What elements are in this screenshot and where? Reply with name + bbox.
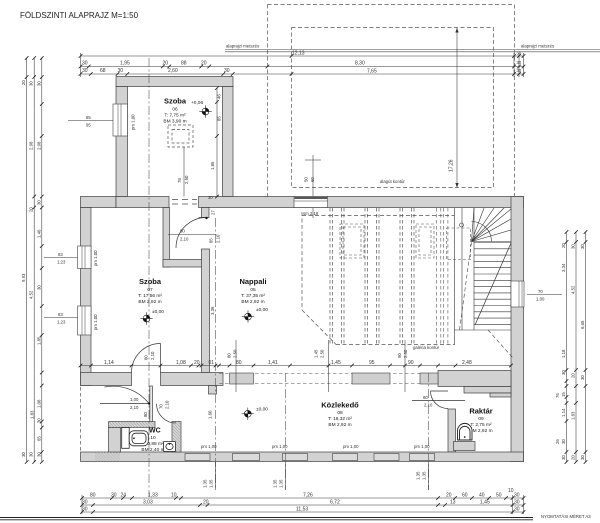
wall wc east: [172, 422, 181, 453]
windows: west wall szoba06: [113, 104, 128, 136]
svg-text:30: 30: [36, 418, 41, 423]
top dim line end connectors right: [81, 53, 524, 77]
wall stub corridor/wc (thin partition): [150, 386, 153, 422]
wc west dashed edge: [80, 387, 82, 452]
wall raktar north-east block: [490, 393, 511, 397]
survey symbol szoba06: [199, 105, 211, 117]
svg-text:30: 30: [36, 200, 41, 205]
svg-text:6,72: 6,72: [330, 500, 340, 506]
svg-text:20: 20: [571, 455, 576, 460]
szoba06 interior right dim line: [216, 88, 218, 197]
tunnel contour outer dashed rect: [268, 5, 515, 197]
svg-text:2,48: 2,48: [462, 360, 472, 366]
wall raktar north: [464, 387, 511, 394]
svg-text:30: 30: [82, 68, 88, 74]
svg-text:30: 30: [208, 195, 213, 200]
gallery joist strips: [330, 208, 414, 345]
door west corridor arc: [100, 386, 149, 403]
svg-text:±0,00: ±0,00: [152, 309, 164, 315]
svg-text:FÖLDSZINTI ALAPRAJZ M=1:50: FÖLDSZINTI ALAPRAJZ M=1:50: [20, 11, 139, 20]
svg-text:17,26: 17,26: [449, 159, 455, 172]
svg-text:85: 85: [86, 115, 91, 120]
svg-text:30: 30: [514, 500, 520, 506]
svg-text:30: 30: [514, 507, 520, 513]
stair newel circle: [460, 223, 464, 227]
right vertical dimension chains: [567, 232, 586, 462]
entry opening dashes (szoba06 to hall): [172, 200, 197, 205]
svg-text:1,83: 1,83: [30, 410, 35, 419]
svg-text:1,14: 1,14: [561, 408, 566, 417]
dim ticks top rows: [79, 54, 526, 76]
svg-text:pm 1,00: pm 1,00: [414, 444, 430, 449]
svg-text:2,10: 2,10: [165, 400, 170, 409]
svg-text:1,35: 1,35: [279, 479, 284, 488]
svg-text:2,50: 2,50: [184, 175, 189, 184]
svg-text:1,45: 1,45: [480, 500, 490, 506]
svg-text:1,95: 1,95: [120, 61, 130, 67]
stair gallery dashed opening box: [447, 228, 471, 260]
svg-text:85: 85: [217, 116, 222, 121]
stair stringer diagonal: [475, 243, 511, 325]
svg-text:1,83: 1,83: [571, 411, 576, 420]
svg-text:7,65: 7,65: [367, 68, 377, 74]
svg-text:2,98: 2,98: [29, 141, 34, 150]
south glazing band nappali: dashed sill lines: [219, 374, 438, 384]
window dim szoba07 window1 (83/1,23): [44, 257, 81, 259]
svg-text:1,00: 1,00: [130, 397, 139, 402]
svg-text:80: 80: [90, 493, 96, 499]
svg-text:pm 1,00: pm 1,00: [201, 444, 217, 449]
room label szoba07: [138, 277, 162, 305]
svg-text:10: 10: [508, 488, 514, 494]
svg-text:3,34: 3,34: [561, 263, 566, 272]
room label raktar: [469, 407, 492, 435]
svg-text:BM 2,40 m: BM 2,40 m: [141, 447, 164, 453]
svg-text:alagút kontúr: alagút kontúr: [380, 179, 405, 184]
svg-text:BM 2,92 m: BM 2,92 m: [328, 422, 351, 428]
wall main north (left of annex): [81, 197, 117, 208]
stair winder radial treads: [472, 208, 512, 242]
svg-text:1,00: 1,00: [536, 297, 545, 302]
svg-text:2,10: 2,10: [150, 351, 155, 360]
svg-text:20: 20: [21, 80, 26, 85]
wall szoba06 left: [116, 87, 128, 197]
svg-text:08: 08: [337, 410, 343, 416]
svg-text:1,33: 1,33: [148, 493, 158, 499]
svg-text:46: 46: [217, 94, 222, 99]
svg-text:Raktár: Raktár: [469, 407, 492, 416]
svg-text:10: 10: [150, 435, 156, 441]
stairs boundary lines: [455, 208, 512, 345]
svg-text:80: 80: [144, 355, 149, 360]
svg-text:BM 3,90 m: BM 3,90 m: [163, 119, 186, 125]
svg-text:1,08: 1,08: [36, 399, 41, 408]
svg-text:3,03: 3,03: [143, 500, 153, 506]
svg-text:24: 24: [121, 493, 127, 499]
svg-text:30: 30: [21, 452, 26, 457]
svg-text:30: 30: [36, 81, 41, 86]
svg-text:T: 16,32 m²: T: 16,32 m²: [328, 416, 352, 422]
svg-text:1,23: 1,23: [57, 260, 66, 265]
wall west: [81, 208, 92, 386]
svg-text:90: 90: [397, 353, 402, 358]
svg-text:95: 95: [86, 123, 91, 128]
left vertical dimension chains: [27, 58, 42, 462]
wall szoba06 top: [116, 77, 233, 87]
svg-text:1,85: 1,85: [210, 161, 215, 170]
dimension line 12,13: [80, 56, 524, 74]
szoba06 flue line down with dim 78/2,50: [183, 147, 185, 197]
room label kozlekedo: [321, 401, 359, 429]
window szoba07 w2: [78, 306, 92, 335]
svg-text:BM 2,92 m: BM 2,92 m: [469, 428, 492, 434]
svg-text:50: 50: [496, 493, 502, 499]
svg-text:30: 30: [514, 493, 520, 499]
svg-text:2,10: 2,10: [130, 405, 139, 410]
wall main north (under annex west part): [116, 197, 169, 208]
svg-text:1,08: 1,08: [176, 360, 186, 366]
svg-text:7,26: 7,26: [303, 493, 313, 499]
svg-text:4,52: 4,52: [29, 290, 34, 299]
fixture raktar boiler: [458, 423, 473, 440]
wall hall west: [163, 208, 170, 268]
svg-text:30: 30: [224, 68, 230, 74]
svg-text:13: 13: [450, 500, 456, 506]
svg-text:BM 2,92 m: BM 2,92 m: [138, 299, 161, 305]
svg-text:2,60: 2,60: [168, 68, 178, 74]
svg-text:65: 65: [36, 436, 41, 441]
svg-text:pm 1,00: pm 1,00: [272, 444, 288, 449]
wall south (bottom): [81, 452, 524, 462]
wall wc left pier: [109, 428, 121, 453]
svg-text:Közlekedő: Közlekedő: [321, 401, 359, 410]
door hall entry arc: [176, 218, 207, 249]
svg-text:1,45: 1,45: [314, 349, 319, 358]
svg-text:1,14: 1,14: [104, 360, 114, 366]
svg-text:30: 30: [580, 244, 585, 249]
svg-text:Szoba: Szoba: [164, 97, 187, 106]
svg-text:88: 88: [181, 61, 187, 67]
svg-text:sm 2,18: sm 2,18: [303, 211, 319, 216]
svg-text:30: 30: [580, 375, 585, 380]
svg-text:83: 83: [58, 252, 63, 257]
svg-text:80: 80: [143, 412, 148, 417]
svg-text:NYOMTATÁSI MÉRET A3: NYOMTATÁSI MÉRET A3: [541, 514, 591, 519]
svg-text:90: 90: [180, 229, 185, 234]
svg-text:30: 30: [561, 370, 566, 375]
svg-text:76: 76: [555, 393, 560, 398]
wall raktar west: [448, 409, 456, 452]
south wall window boxes (kozlekedo): [185, 454, 435, 461]
svg-text:4,52: 4,52: [571, 285, 576, 294]
room label szoba06: [163, 97, 186, 125]
vertical dim 17,26: [456, 28, 458, 188]
svg-text:1,18: 1,18: [561, 349, 566, 358]
wall wc top: [109, 422, 156, 428]
wall pier at nappali SW: [209, 386, 217, 395]
svg-text:2,10: 2,10: [216, 234, 221, 243]
svg-text:1,35: 1,35: [416, 471, 421, 480]
wc door arc: [157, 404, 176, 423]
svg-text:WC: WC: [149, 428, 161, 435]
gallery dashed niche boxes: [340, 224, 434, 258]
stair walk line dashed diagonal: [460, 242, 514, 358]
svg-text:40: 40: [479, 493, 485, 499]
wall hall south: [163, 260, 209, 268]
arrowhead on 17,26 line top: [455, 28, 458, 33]
svg-text:BM 2,92 m: BM 2,92 m: [241, 299, 264, 305]
svg-text:83: 83: [58, 312, 63, 317]
svg-text:20: 20: [446, 493, 452, 499]
window dim szoba06 (85/95): [68, 120, 114, 122]
svg-text:9,93: 9,93: [21, 273, 26, 282]
bottom border double line: [0, 518, 533, 520]
svg-text:T: 37,35 m²: T: 37,35 m²: [241, 293, 265, 299]
svg-text:Szoba: Szoba: [139, 277, 162, 286]
svg-text:1,35: 1,35: [422, 471, 427, 480]
bottom dim row end connectors: [82, 495, 524, 514]
svg-text:20: 20: [571, 373, 576, 378]
svg-text:27: 27: [211, 210, 216, 215]
wall szoba07 south (west part): [81, 373, 132, 386]
wall hall east stub: [202, 208, 210, 218]
walls: main structure: [81, 77, 524, 462]
svg-text:1,35: 1,35: [273, 479, 278, 488]
svg-text:30: 30: [571, 244, 576, 249]
svg-text:15: 15: [561, 392, 566, 397]
svg-text:50: 50: [304, 177, 309, 182]
south glazing window boxes: [230, 373, 439, 384]
window szoba07 w1: [78, 246, 92, 269]
svg-text:1,60: 1,60: [208, 410, 213, 419]
window dim szoba07 window2 (83/1,23): [44, 317, 81, 319]
tunnel contour inner dashed rect (alagut kontur): [292, 28, 494, 188]
window north wall (nappali): [294, 197, 328, 208]
svg-text:80: 80: [423, 395, 428, 400]
svg-text:2,10: 2,10: [180, 237, 189, 242]
svg-text:20: 20: [194, 360, 200, 366]
svg-text:Nappali: Nappali: [239, 277, 266, 286]
svg-text:1,45: 1,45: [331, 360, 341, 366]
szoba06 chimney dashed square: [168, 125, 193, 147]
svg-text:80: 80: [227, 353, 232, 358]
svg-text:30: 30: [111, 493, 117, 499]
svg-text:80: 80: [236, 360, 242, 366]
wall east: [511, 197, 524, 462]
svg-text:T: 7,75 m²: T: 7,75 m²: [164, 113, 186, 119]
svg-text:30: 30: [82, 507, 88, 513]
svg-text:pm 1,00: pm 1,00: [131, 114, 136, 130]
hatching on wc walls: [95, 422, 181, 462]
stairs window dim 70/1,00: [527, 294, 562, 296]
svg-text:20: 20: [561, 243, 566, 248]
svg-text:05: 05: [250, 287, 256, 293]
svg-text:26: 26: [555, 439, 560, 444]
svg-text:30: 30: [580, 455, 585, 460]
joist dashed lines near stairs: [437, 208, 448, 345]
door raktar arc: [412, 391, 465, 409]
window east wall (stairs): [511, 281, 524, 307]
svg-text:2,50: 2,50: [403, 349, 408, 358]
svg-text:20: 20: [203, 500, 209, 506]
svg-text:11,53: 11,53: [296, 507, 308, 513]
section dash-dot vertical line 1: [149, 58, 429, 497]
svg-text:T: 17,56 m²: T: 17,56 m²: [138, 293, 162, 299]
south wall dim line (1,14 / 80 / 1,08 ...): [81, 365, 512, 367]
svg-text:12,13: 12,13: [292, 51, 305, 57]
svg-text:30: 30: [561, 455, 566, 460]
svg-text:85: 85: [209, 238, 214, 243]
svg-text:1,46: 1,46: [36, 229, 41, 238]
stair treads straight flight: [474, 243, 511, 325]
svg-text:78: 78: [177, 178, 182, 183]
svg-text:95: 95: [369, 360, 375, 366]
svg-text:90: 90: [408, 360, 414, 366]
svg-text:1,85: 1,85: [36, 336, 41, 345]
rotated parapet dims above south glazing: [236, 340, 405, 392]
svg-text:09: 09: [478, 416, 484, 422]
svg-text:1,35: 1,35: [209, 479, 214, 488]
wall szoba07 south (east part): [161, 373, 224, 386]
fixture wc toilet: [122, 428, 149, 449]
short vertical reference lines below plan with 1,35 labels: [216, 462, 429, 490]
svg-text:70: 70: [538, 289, 543, 294]
svg-text:60: 60: [462, 493, 468, 499]
small vertical dim 50/60 near gallery top: [305, 155, 321, 218]
svg-text:3,36: 3,36: [210, 306, 215, 315]
wall szoba07/nappali divider: [202, 249, 210, 373]
svg-text:2,98: 2,98: [36, 141, 41, 150]
stair winder arc: [472, 222, 492, 242]
svg-text:30: 30: [82, 500, 88, 506]
fixture wc sink: [164, 442, 176, 452]
svg-text:30: 30: [36, 452, 41, 457]
svg-text:30: 30: [36, 285, 41, 290]
svg-text:10: 10: [171, 493, 177, 499]
svg-text:pm 1,00: pm 1,00: [93, 314, 98, 330]
svg-text:30: 30: [29, 81, 34, 86]
svg-text:2,50: 2,50: [320, 349, 325, 358]
svg-text:galéria kontúr: galéria kontúr: [413, 345, 440, 350]
svg-text:6,65: 6,65: [580, 320, 585, 329]
svg-text:8,30: 8,30: [355, 61, 365, 67]
svg-text:06: 06: [172, 107, 178, 113]
svg-text:±0,00: ±0,00: [256, 307, 268, 313]
svg-text:1,23: 1,23: [57, 320, 66, 325]
svg-text:pm 1,00: pm 1,00: [343, 444, 359, 449]
svg-text:alaprajzi metszés: alaprajzi metszés: [226, 44, 259, 49]
wall main north (east of entry opening): [199, 197, 524, 208]
svg-text:30: 30: [561, 439, 566, 444]
svg-text:70: 70: [159, 404, 164, 409]
svg-text:30: 30: [29, 452, 34, 457]
svg-text:+0,06: +0,06: [191, 100, 203, 106]
svg-text:30: 30: [82, 61, 88, 67]
svg-text:68: 68: [100, 68, 106, 74]
wall nappali south-east solid part: [438, 371, 511, 387]
bottom dimension row 1: [82, 498, 524, 512]
door szoba07 arc (from kozlekedo): [132, 344, 161, 373]
svg-text:±0,00: ±0,00: [256, 407, 268, 413]
room label nappali: [239, 277, 266, 305]
svg-text:T: 2,75 m²: T: 2,75 m²: [470, 422, 492, 428]
svg-text:pm 1,00: pm 1,00: [93, 250, 98, 266]
gallery contour dashed: [302, 212, 455, 345]
svg-text:1,41: 1,41: [268, 360, 278, 366]
svg-text:alaprajzi metszés: alaprajzi metszés: [521, 44, 554, 49]
svg-text:2,50: 2,50: [233, 349, 238, 358]
svg-text:07: 07: [147, 287, 153, 293]
svg-text:20: 20: [29, 207, 34, 212]
svg-text:1,35: 1,35: [203, 479, 208, 488]
wall szoba06 right: [223, 87, 234, 197]
section cut line (alaprajzi metszes) double horizontal: [225, 49, 600, 51]
svg-text:01: 01: [209, 360, 215, 366]
svg-text:60: 60: [310, 177, 315, 182]
